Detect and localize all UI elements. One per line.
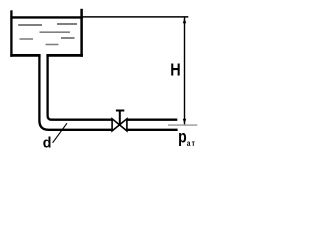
valve stem — [119, 111, 121, 125]
water dash 6 — [46, 44, 59, 46]
dimension arrow up — [183, 18, 186, 24]
water dash 5 — [61, 37, 75, 39]
water dash 4 — [20, 38, 34, 40]
pipe outer wall: vertical left wall, outer bend, bottom line to valve — [39, 55, 112, 130]
water dash 2 — [57, 23, 77, 25]
tank right wall — [80, 9, 83, 57]
H dimension line — [184, 18, 186, 125]
extension line at pipe outlet level — [168, 124, 197, 126]
tank bottom left segment — [10, 54, 40, 57]
pipe bottom line right of valve — [127, 129, 178, 131]
tank left wall — [10, 10, 12, 57]
tank bottom right segment — [46, 54, 83, 57]
water dash 1 — [18, 24, 42, 26]
leader line for d — [53, 123, 67, 143]
svg-text:ат: ат — [187, 138, 196, 148]
pipe top line right of valve — [127, 118, 177, 120]
water surface line — [10, 16, 83, 18]
svg-text:p: p — [178, 128, 187, 147]
dimension arrow down — [183, 119, 186, 125]
extension line at water surface level — [83, 16, 188, 18]
svg-text:d: d — [43, 135, 52, 151]
water dash 3 — [40, 31, 71, 33]
valve bowtie body — [112, 119, 127, 131]
pipe inner wall: vertical right wall, inner bend, top line to valve — [48, 55, 112, 120]
valve handle T-bar — [116, 110, 124, 112]
svg-text:H: H — [170, 60, 180, 80]
